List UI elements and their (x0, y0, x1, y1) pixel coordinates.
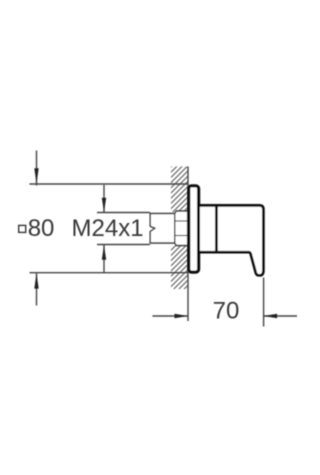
dimension extension line 70 right (263, 278, 265, 327)
dimension extension line M24 bottom (97, 244, 150, 246)
arrow M24 down (102, 198, 106, 213)
escutcheon plate (side view) (189, 186, 199, 272)
dimension extension line bottom (square 80 bottom) (30, 272, 189, 274)
wall hatch upper section (171, 167, 188, 213)
dimension line 70 left segment (152, 315, 187, 317)
svg-text:70: 70 (213, 298, 240, 325)
handle neck joint line (215, 205, 218, 252)
dimension line 70 right segment (264, 315, 297, 317)
arrow square80 up (34, 273, 38, 288)
wall face line (187, 167, 189, 322)
wall nut (175, 211, 188, 246)
arrow M24 up (102, 245, 106, 260)
dimension line square80 upper segment (36, 151, 38, 186)
svg-text:80: 80 (28, 215, 55, 242)
nut facet line lower (175, 235, 188, 237)
dimension line square80 lower segment (36, 273, 38, 305)
nut facet line upper (175, 220, 188, 222)
dimension extension line M24 top (97, 212, 150, 214)
svg-text:M24x1: M24x1 (72, 215, 144, 242)
valve spigot tube with stem slot notch (150, 214, 175, 244)
handle lever body (200, 205, 263, 275)
arrow 70 right-pointing (175, 314, 188, 318)
arrow square80 down (34, 168, 38, 183)
square symbol of square80 label (19, 225, 26, 232)
dimension line M24 upper segment (103, 185, 105, 212)
wall hatch lower section (171, 246, 188, 290)
dimension line M24 lower segment (103, 245, 105, 273)
arrow 70 left-pointing (264, 314, 277, 318)
dimension extension line top (square 80 top) (30, 183, 189, 185)
